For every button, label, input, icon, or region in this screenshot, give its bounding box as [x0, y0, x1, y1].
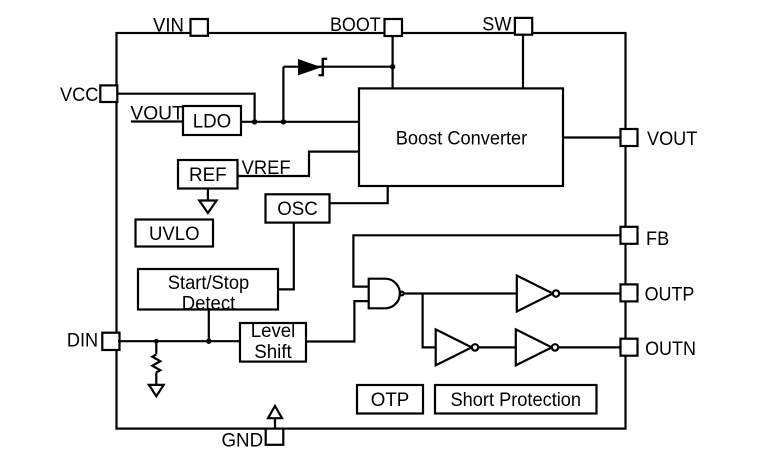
- wire VCC to LDO output node: [118, 94, 255, 122]
- wire diode anode branch: [282, 67, 284, 122]
- wire VOUT net stub at LDO input: [131, 120, 183, 122]
- wire diode row to BOOT node: [283, 66, 392, 68]
- svg-text:VREF: VREF: [242, 157, 291, 179]
- wire VREF from REF to Boost Converter: [238, 152, 360, 176]
- IC boundary: [117, 33, 626, 429]
- svg-text:VIN: VIN: [153, 14, 184, 36]
- block OSC: [266, 194, 330, 222]
- junction dots: [154, 64, 395, 344]
- wire OSC to Start/Stop Detect: [278, 223, 294, 290]
- block OTP: [357, 385, 423, 414]
- node DIN junction: [206, 339, 211, 344]
- svg-text:BOOT: BOOT: [330, 14, 381, 36]
- inverter U3 (first of OUTN chain): [436, 329, 478, 365]
- wire DIN to Level Shift: [118, 340, 240, 342]
- pin pad OUTP: [621, 284, 638, 301]
- wire LDO output to Boost Converter: [241, 121, 359, 123]
- wire Level Shift to NAND input B: [306, 301, 369, 341]
- pin pad FB: [621, 227, 638, 244]
- svg-text:Detect: Detect: [182, 292, 236, 314]
- pin pad VIN: [191, 19, 208, 36]
- pin pad OUTN: [621, 339, 638, 356]
- svg-text:REF: REF: [189, 164, 227, 186]
- svg-text:VCC: VCC: [60, 84, 98, 106]
- svg-text:Short Protection: Short Protection: [451, 389, 582, 411]
- pin pad VOUT: [621, 129, 638, 146]
- node VCC-LDO junction: [252, 119, 257, 124]
- gate U1 NAND: [369, 279, 404, 309]
- diode D1 (Schottky, bootstrap): [298, 58, 327, 76]
- block REF: [178, 160, 238, 189]
- node BOOT-diode junction: [390, 64, 395, 69]
- block LDO: [183, 106, 241, 135]
- svg-text:OUTN: OUTN: [645, 338, 696, 360]
- svg-text:LDO: LDO: [193, 110, 232, 132]
- svg-text:DIN: DIN: [67, 330, 98, 352]
- wire NAND output to OUTP inverter: [404, 292, 517, 294]
- wire Start/Stop Detect to DIN net: [208, 310, 210, 342]
- svg-text:VOUT: VOUT: [647, 128, 697, 150]
- pin pad DIN: [102, 333, 119, 350]
- inverter U4 (OUTN driver): [516, 329, 558, 365]
- REF output down arrow: [199, 189, 216, 214]
- wire inverter U2 to OUTP pad: [559, 292, 620, 294]
- inverter U2 (OUTP driver): [517, 276, 559, 312]
- ground symbol arrow above GND pad: [268, 406, 282, 429]
- block UVLO: [136, 220, 214, 247]
- pin pad BOOT: [385, 19, 403, 36]
- svg-text:Shift: Shift: [254, 341, 292, 363]
- block Boost Converter: [359, 88, 563, 186]
- svg-text:FB: FB: [646, 228, 669, 250]
- svg-text:OSC: OSC: [277, 198, 318, 220]
- svg-text:VOUT: VOUT: [130, 102, 183, 124]
- svg-text:Level: Level: [251, 320, 296, 342]
- wire inverter U3 to inverter U4: [478, 346, 516, 348]
- svg-text:Boost Converter: Boost Converter: [396, 127, 528, 149]
- wire FB pad to NAND input A: [353, 235, 620, 286]
- wire Boost Converter to VOUT pad: [563, 136, 621, 138]
- wire OSC to Boost Converter bottom: [330, 186, 388, 203]
- block Start/Stop Detect: [138, 269, 278, 310]
- node resistor junction: [154, 339, 159, 344]
- wire BOOT pad to Boost Converter: [392, 37, 394, 88]
- block Short Protection: [435, 385, 597, 414]
- pin pad GND: [266, 429, 284, 445]
- node diode anode junction: [281, 119, 286, 124]
- pin pad VCC: [100, 85, 117, 102]
- svg-text:OTP: OTP: [371, 389, 410, 411]
- wire branch down to OUTN chain: [423, 294, 436, 348]
- block Level Shift: [240, 323, 306, 362]
- wire inverter U4 to OUTN pad: [558, 346, 620, 348]
- resistor R1 pulldown on DIN: [149, 341, 164, 396]
- svg-text:GND: GND: [222, 429, 264, 451]
- pin pad SW: [515, 18, 532, 35]
- svg-text:SW: SW: [482, 13, 512, 35]
- svg-text:UVLO: UVLO: [149, 223, 200, 245]
- svg-text:OUTP: OUTP: [645, 284, 695, 306]
- wire SW pad to Boost Converter: [522, 36, 524, 89]
- svg-text:Start/Stop: Start/Stop: [168, 272, 250, 294]
